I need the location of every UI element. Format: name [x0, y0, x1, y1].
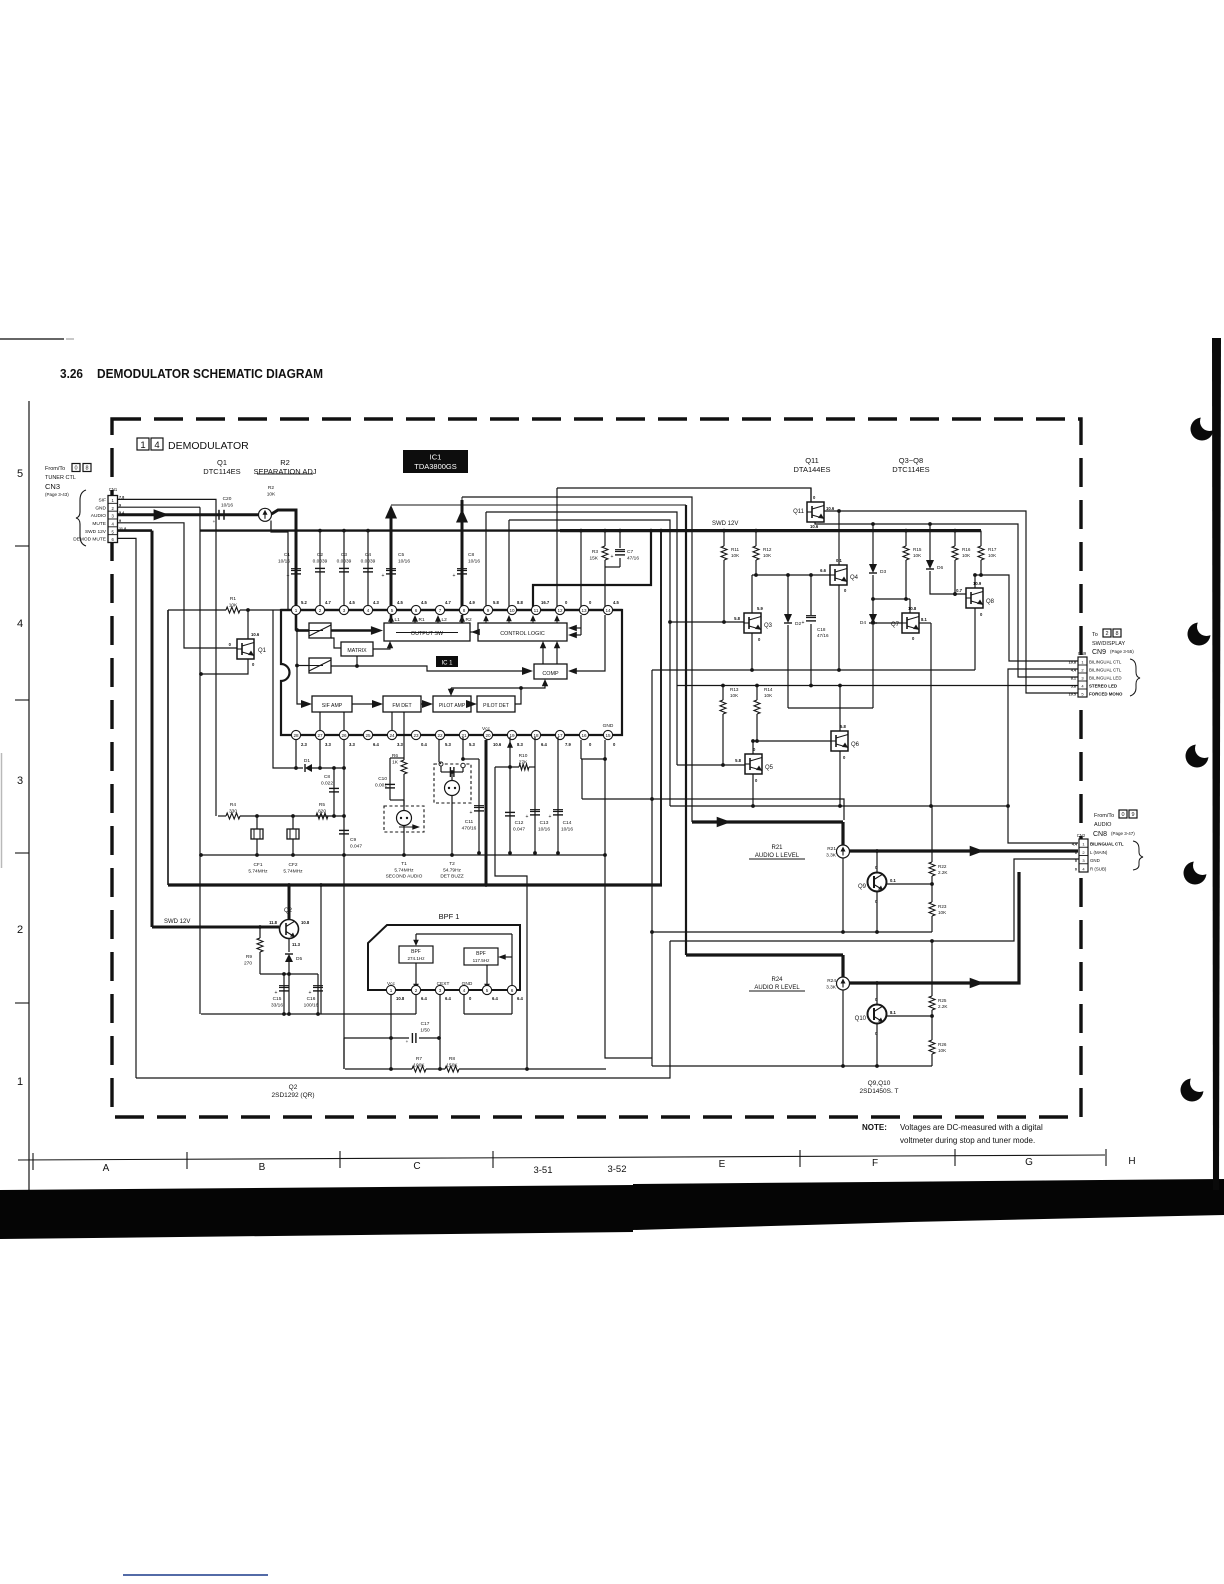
svg-text:4.5: 4.5	[421, 600, 427, 605]
pin 22	[435, 730, 444, 739]
resistor R17	[980, 531, 982, 546]
svg-text:(Page 3-47): (Page 3-47)	[1111, 831, 1135, 836]
GND wire y932	[652, 931, 932, 933]
capacitor C8a	[457, 569, 467, 571]
svg-text:0.022: 0.022	[321, 780, 333, 786]
svg-text:10K: 10K	[962, 553, 971, 558]
wire mixer2 to COMP	[331, 666, 525, 671]
svg-text:54.79Hz: 54.79Hz	[443, 867, 461, 873]
svg-text:SEPARATION ADJ: SEPARATION ADJ	[253, 467, 316, 476]
svg-text:27: 27	[317, 733, 323, 738]
svg-text:10K: 10K	[938, 1048, 947, 1053]
svg-text:R17: R17	[988, 547, 997, 552]
svg-text:21: 21	[461, 733, 467, 738]
svg-text:CN2: CN2	[1077, 833, 1086, 838]
wire R3/C7 to pin14	[605, 566, 620, 568]
svg-text:26: 26	[341, 733, 347, 738]
audio L feed thick wire with arrow	[692, 820, 843, 823]
binder mark 5	[1181, 1079, 1204, 1102]
BPF 274.1Hz box	[399, 946, 433, 963]
svg-text:5: 5	[391, 608, 394, 613]
wire SWD 12V pin5	[118, 529, 153, 532]
svg-text:3-51: 3-51	[533, 1165, 552, 1176]
svg-text:0.047: 0.047	[350, 843, 362, 849]
wire mixer1 to matrix	[331, 638, 341, 648]
svg-text:10/16: 10/16	[561, 826, 573, 832]
capacitor C12	[509, 737, 511, 853]
resonator T2	[434, 764, 471, 803]
svg-text:4: 4	[463, 988, 466, 993]
pin 8	[459, 605, 468, 614]
svg-text:GND: GND	[1090, 858, 1100, 863]
bus wire pin5 to R24 path (y505)	[391, 504, 686, 506]
binder mark 4	[1184, 862, 1207, 885]
bottom ruler line	[18, 1155, 1105, 1160]
svg-text:5.8: 5.8	[735, 758, 741, 763]
pin 18	[531, 730, 540, 739]
svg-text:C8: C8	[324, 774, 330, 780]
svg-text:6.4: 6.4	[517, 996, 523, 1001]
pin27 stub	[319, 740, 321, 768]
wire pin10 up	[508, 520, 510, 610]
resistor R8	[445, 1066, 459, 1072]
svg-text:5.74MHz: 5.74MHz	[283, 868, 303, 874]
svg-text:R24: R24	[771, 977, 783, 983]
svg-text:10.5: 10.5	[1069, 693, 1076, 697]
svg-text:0: 0	[1075, 867, 1077, 871]
pin 9	[483, 605, 492, 614]
svg-text:OUTPUT SW: OUTPUT SW	[411, 631, 444, 637]
wires CONTROL LOGIC right inputs	[575, 627, 581, 629]
svg-text:C17: C17	[421, 1021, 430, 1027]
wire mixer1 to output sw (thick)	[331, 629, 377, 632]
svg-text:10.6: 10.6	[493, 742, 502, 747]
wire T2 to GND bus	[451, 796, 453, 856]
svg-text:SECOND AUDIO: SECOND AUDIO	[386, 874, 423, 880]
svg-text:Voltages are DC-measured with: Voltages are DC-measured with a digital	[900, 1123, 1043, 1132]
svg-text:D5: D5	[296, 956, 302, 962]
capacitor C7	[619, 531, 621, 548]
pin 5	[387, 605, 396, 614]
svg-text:R22: R22	[938, 864, 947, 869]
svg-text:DTA144ES: DTA144ES	[794, 465, 831, 474]
bottom blue rule	[123, 1574, 268, 1576]
svg-text:4.7: 4.7	[325, 600, 331, 605]
ruler tick x340	[339, 1151, 341, 1168]
svg-text:18: 18	[533, 733, 539, 738]
connector CN1 brace	[76, 490, 86, 546]
svg-text:CF2: CF2	[288, 862, 297, 868]
mixer 2	[309, 658, 331, 673]
svg-text:STEREO LED: STEREO LED	[1089, 684, 1117, 689]
wire pilot det to comp	[515, 684, 545, 704]
svg-text:10: 10	[509, 608, 515, 613]
resonator T1	[384, 806, 424, 832]
wire pin22 to T2	[438, 740, 440, 762]
BPF1 inner wires	[416, 933, 512, 935]
capacitor C4	[367, 531, 369, 610]
resistor R22	[931, 806, 933, 862]
CN8 brace	[1133, 841, 1143, 870]
wire pin26 column / D1 line	[273, 610, 303, 768]
svg-text:15K: 15K	[589, 555, 598, 561]
svg-text:SIF: SIF	[99, 498, 107, 504]
svg-text:5.74MHz: 5.74MHz	[394, 867, 414, 873]
wire Q2 emitter	[288, 939, 290, 953]
svg-text:+: +	[406, 1039, 409, 1044]
svg-text:0: 0	[74, 466, 77, 472]
svg-text:10K: 10K	[988, 553, 997, 558]
svg-text:BPF: BPF	[476, 951, 486, 957]
svg-text:+: +	[213, 519, 216, 524]
wire GND vertical	[199, 507, 201, 1014]
wire BPF pin2 to Q2 block	[415, 995, 417, 1014]
svg-text:PILOT AMP: PILOT AMP	[439, 703, 466, 709]
svg-text:3: 3	[17, 775, 23, 787]
bus wire pin9 (y512)	[486, 512, 677, 765]
svg-text:10/16: 10/16	[398, 558, 410, 564]
svg-text:From/To: From/To	[1094, 813, 1114, 819]
svg-text:8.3: 8.3	[517, 742, 523, 747]
block label 1 4 DEMODULATOR	[137, 438, 149, 450]
resistor R7	[345, 1068, 412, 1070]
wire R2 wiper stub	[271, 521, 288, 611]
diode D1	[305, 764, 312, 772]
output sw arrows to pins 5-8 with L1 R1 L2 R2	[390, 615, 393, 623]
svg-text:A: A	[103, 1163, 110, 1174]
potentiometer R21	[841, 822, 844, 845]
svg-text:R13: R13	[730, 687, 739, 692]
svg-text:L (MAIN): L (MAIN)	[1090, 850, 1108, 855]
svg-text:DET BUZZ: DET BUZZ	[440, 874, 463, 880]
resistor R14	[756, 686, 758, 701]
svg-text:8: 8	[85, 466, 88, 472]
capacitor C2	[319, 531, 321, 610]
svg-text:8.1: 8.1	[1071, 677, 1076, 681]
svg-text:R21: R21	[771, 845, 783, 851]
ruler tick y700	[15, 699, 29, 701]
STEREO LED / base bus wire y685	[677, 685, 1078, 687]
BPF1 outline	[368, 925, 520, 990]
svg-text:+: +	[382, 573, 385, 579]
svg-text:0.1: 0.1	[890, 878, 896, 883]
wire Q9 collector to R22/R23	[886, 883, 932, 885]
potentiometer R2	[259, 508, 272, 521]
svg-text:Q10: Q10	[855, 1016, 867, 1022]
svg-text:SWD 12V: SWD 12V	[164, 919, 190, 925]
wire BPF pin3 down	[439, 995, 441, 1069]
svg-text:10.8: 10.8	[301, 920, 310, 925]
svg-text:Q1: Q1	[258, 648, 267, 654]
svg-text:1/50: 1/50	[420, 1027, 430, 1033]
svg-text:0.7: 0.7	[956, 588, 962, 593]
svg-text:C13: C13	[540, 820, 549, 826]
svg-text:R26: R26	[938, 1042, 947, 1047]
svg-text:10.6: 10.6	[826, 506, 835, 511]
bus wire pin10 (y520)	[509, 520, 670, 806]
svg-text:1: 1	[390, 988, 393, 993]
svg-text:CF1: CF1	[253, 862, 262, 868]
svg-text:R2: R2	[466, 617, 472, 623]
pin 26	[339, 730, 348, 739]
wire Q1 emitter	[201, 659, 248, 674]
CN9 brace	[1130, 659, 1140, 696]
svg-text:C4: C4	[365, 552, 371, 558]
svg-text:MUTE: MUTE	[92, 521, 106, 527]
svg-text:CN9: CN9	[1092, 649, 1106, 656]
wire mixers to SIF AMP	[295, 628, 299, 632]
svg-text:22: 22	[437, 733, 443, 738]
wire Q5 collector	[752, 741, 754, 754]
svg-text:+: +	[275, 990, 278, 996]
svg-text:Vcc: Vcc	[482, 726, 491, 732]
wire SWD to pin11	[533, 531, 651, 610]
svg-text:(Page 3-43): (Page 3-43)	[45, 492, 69, 497]
svg-text:TUNER CTL: TUNER CTL	[45, 475, 76, 481]
capacitor C20	[218, 510, 220, 520]
wire Q3 emitter	[751, 633, 753, 670]
long GND vertical x606	[605, 759, 652, 1058]
svg-text:FM DET: FM DET	[392, 703, 412, 709]
wire CN9 pin2	[1008, 669, 1078, 843]
svg-text:R1: R1	[230, 596, 236, 602]
svg-text:5.2: 5.2	[301, 600, 307, 605]
PILOT DET box	[477, 696, 515, 712]
svg-text:6.4: 6.4	[373, 742, 379, 747]
diode D4	[872, 599, 874, 614]
wire Q7 emitter down to R22	[930, 623, 932, 806]
svg-text:5.8: 5.8	[734, 616, 740, 621]
left ruler line	[28, 401, 30, 1196]
svg-text:BILINGUAL LED: BILINGUAL LED	[1089, 676, 1122, 681]
pin 27	[315, 730, 324, 739]
svg-text:H: H	[1128, 1156, 1135, 1167]
svg-text:+: +	[802, 620, 805, 626]
svg-text:470/16: 470/16	[462, 825, 477, 831]
pin 21	[459, 730, 468, 739]
ceramic filter CF1	[256, 816, 258, 829]
svg-text:R14: R14	[764, 687, 773, 692]
resistor R13	[722, 686, 724, 701]
BPF1 pin 1	[386, 985, 395, 994]
svg-text:2SD1292 (QR): 2SD1292 (QR)	[272, 1092, 315, 1099]
svg-text:G: G	[1025, 1157, 1033, 1168]
wire SWD down to Q2 (thick)	[151, 531, 154, 927]
svg-text:R12: R12	[763, 547, 772, 552]
svg-text:2.2K: 2.2K	[938, 870, 948, 875]
svg-text:5: 5	[486, 988, 489, 993]
svg-text:C18: C18	[817, 627, 826, 632]
svg-text:10K: 10K	[938, 910, 947, 915]
ruler tick y1003	[15, 1002, 29, 1004]
svg-text:DTC114ES: DTC114ES	[892, 465, 929, 474]
wire Q6 collector to stereo led line	[839, 686, 841, 732]
pin 12	[555, 605, 564, 614]
svg-text:0: 0	[1121, 812, 1124, 818]
capacitor C13	[534, 737, 536, 853]
svg-text:25: 25	[365, 733, 371, 738]
node R1/Q1	[246, 608, 250, 612]
resistor R6	[403, 712, 405, 760]
svg-text:R25: R25	[938, 998, 947, 1003]
transistor Q5	[745, 754, 762, 774]
svg-text:4.9: 4.9	[469, 600, 475, 605]
svg-text:Q11: Q11	[793, 509, 805, 515]
svg-text:GND: GND	[462, 981, 473, 987]
svg-text:C8: C8	[468, 552, 474, 558]
svg-text:23: 23	[413, 733, 419, 738]
wire base line Q4 y575	[752, 574, 830, 576]
svg-text:2.2K: 2.2K	[938, 1004, 948, 1009]
wire Q7 base	[873, 622, 902, 624]
pin 4	[363, 605, 372, 614]
svg-text:117.5Hz: 117.5Hz	[473, 958, 490, 963]
svg-text:100/16: 100/16	[304, 1002, 319, 1008]
transistor Q9	[875, 849, 879, 853]
resistor R15	[905, 531, 907, 546]
Vcc rail y885 (thick)	[168, 883, 662, 886]
pin 1	[291, 605, 300, 614]
wire control logic to output sw	[470, 631, 478, 633]
ruler tick x493	[492, 1151, 494, 1168]
FM DET box	[383, 696, 421, 712]
svg-text:11: 11	[534, 608, 539, 613]
binder mark 1	[1191, 418, 1214, 441]
svg-text:To: To	[1092, 632, 1098, 638]
audio R feed thick wire	[686, 953, 843, 956]
svg-text:33/16: 33/16	[271, 1002, 283, 1008]
resistor R5	[316, 813, 328, 819]
wire Q5 emitter	[752, 774, 754, 806]
svg-text:7.9: 7.9	[565, 742, 571, 747]
wire GND pin2	[118, 506, 201, 508]
svg-text:4: 4	[17, 618, 23, 630]
svg-text:4: 4	[154, 440, 159, 451]
resistor R10	[507, 741, 513, 748]
right edge binding stripe	[1212, 338, 1221, 1190]
svg-text:R2: R2	[268, 485, 274, 491]
pin 19	[507, 730, 516, 739]
svg-text:C11: C11	[465, 819, 474, 825]
binder mark 2	[1188, 623, 1211, 646]
svg-text:Q5: Q5	[765, 765, 774, 771]
bilingual wire y806	[670, 805, 1008, 807]
svg-text:R (SUB): R (SUB)	[1090, 866, 1107, 871]
capacitor C1	[291, 569, 301, 571]
svg-text:AUDIO L LEVEL: AUDIO L LEVEL	[755, 853, 800, 859]
svg-text:Q3~Q8: Q3~Q8	[899, 456, 923, 465]
svg-text:10/16: 10/16	[278, 558, 290, 564]
wire pin1 to mixer1 (thick)	[295, 615, 298, 631]
svg-text:1K: 1K	[392, 759, 399, 765]
capacitor C8	[333, 768, 335, 816]
wire R15/D3 tie y599	[873, 598, 910, 600]
pin 3	[339, 605, 348, 614]
svg-text:3: 3	[343, 608, 346, 613]
svg-text:2: 2	[1105, 631, 1108, 637]
svg-text:3.3K: 3.3K	[826, 984, 837, 990]
svg-text:6: 6	[511, 988, 514, 993]
wire Q3 collector	[751, 575, 753, 613]
node Q2 emitter / R9	[287, 972, 291, 976]
transistor Q1	[247, 610, 249, 639]
wire FM DET to PILOT AMP	[421, 703, 427, 705]
svg-text:20: 20	[485, 733, 491, 738]
SIF AMP box	[312, 696, 352, 712]
wire R2 to IC pin1 (thick)	[272, 510, 297, 610]
svg-text:0.4: 0.4	[421, 742, 427, 747]
svg-text:Q7: Q7	[891, 622, 900, 628]
svg-text:R24: R24	[827, 978, 836, 984]
svg-text:CEXT: CEXT	[437, 981, 450, 987]
wire pin9 up	[485, 512, 487, 610]
GND wire y1066	[652, 1065, 932, 1067]
capacitor C17	[344, 1037, 409, 1039]
COMP box	[534, 664, 567, 679]
wire SIF AMP to FM DET	[352, 703, 377, 705]
svg-text:10/16: 10/16	[221, 502, 233, 508]
svg-text:R9: R9	[246, 954, 252, 960]
Q2 block right wire	[320, 885, 322, 1014]
svg-text:4.5: 4.5	[349, 600, 355, 605]
svg-text:COMP: COMP	[542, 671, 559, 677]
svg-text:R11: R11	[731, 547, 740, 552]
svg-text:3.26: 3.26	[60, 367, 83, 381]
diode D6	[929, 524, 931, 560]
binder mark 3	[1186, 745, 1209, 768]
wire SWD to Q2 base (thick)	[152, 926, 279, 929]
svg-text:C5: C5	[398, 552, 404, 558]
bottom long wire y1078	[136, 941, 670, 1078]
BPF1 pin 3	[435, 985, 444, 994]
wire D2-D4 bottom y708	[788, 707, 873, 709]
svg-text:D3: D3	[880, 569, 886, 575]
svg-text:BILINGUAL CTL: BILINGUAL CTL	[1089, 668, 1122, 673]
svg-text:330: 330	[229, 808, 237, 814]
pin 16	[579, 730, 588, 739]
svg-text:10K: 10K	[913, 553, 922, 558]
svg-text:0.001: 0.001	[375, 782, 387, 788]
svg-text:8: 8	[1115, 631, 1118, 637]
svg-text:6: 6	[415, 608, 418, 613]
pin 23	[411, 730, 420, 739]
wires COMP to CONTROL LOGIC	[542, 646, 544, 664]
svg-text:+: +	[526, 814, 529, 820]
svg-text:270: 270	[244, 960, 252, 966]
svg-text:0.047: 0.047	[513, 826, 525, 832]
resistor R16	[954, 531, 956, 546]
wire Q2 collector to Vcc rail (thick)	[288, 885, 291, 920]
GND bus y855	[201, 854, 606, 856]
pin 6	[411, 605, 420, 614]
top-left margin rule	[0, 338, 64, 340]
svg-text:2.3: 2.3	[301, 742, 307, 747]
diode D5	[285, 954, 293, 962]
svg-text:Q11: Q11	[805, 456, 819, 465]
svg-text:8.8: 8.8	[517, 600, 523, 605]
svg-text:C9: C9	[350, 837, 356, 843]
ruler tick x800	[799, 1150, 801, 1167]
svg-text:CN9: CN9	[1078, 651, 1087, 656]
pin 24	[387, 730, 396, 739]
svg-text:3-52: 3-52	[607, 1164, 626, 1175]
wire x582 from GND jog	[581, 759, 583, 799]
svg-text:C1: C1	[284, 552, 290, 558]
svg-text:R8: R8	[449, 1056, 455, 1062]
svg-text:R21: R21	[827, 846, 836, 852]
GND wire y941	[670, 859, 1079, 941]
svg-text:PILOT DET: PILOT DET	[483, 703, 509, 709]
